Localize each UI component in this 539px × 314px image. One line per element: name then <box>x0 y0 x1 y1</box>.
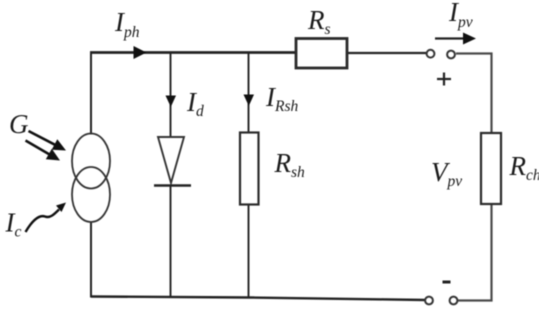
terminal node bottom left <box>425 297 433 305</box>
svg-text:Ic: Ic <box>5 208 22 241</box>
resistor Rch (load, vertical) <box>481 133 501 204</box>
wire Rsh branch upper <box>248 53 250 133</box>
svg-text:Rch: Rch <box>509 151 539 184</box>
wire Rsh branch lower <box>248 205 250 298</box>
wire top right to corner <box>456 54 492 134</box>
wire bottom horizontal <box>91 297 426 301</box>
wire bottom right corner <box>457 204 492 301</box>
svg-text:IRsh: IRsh <box>265 82 299 115</box>
terminal node bottom right <box>450 297 458 305</box>
svg-text:Id: Id <box>186 87 204 120</box>
label minus terminal <box>443 281 451 284</box>
arrow I_d (on diode branch) <box>166 96 177 108</box>
wire left vertical upper <box>90 53 92 135</box>
arrow I_Rsh (on shunt branch) <box>244 95 255 107</box>
svg-text:Iph: Iph <box>114 7 140 41</box>
svg-text:Rsh: Rsh <box>274 148 306 181</box>
arrow G irradiance 2 <box>26 141 61 161</box>
svg-text:Ipv: Ipv <box>448 0 473 31</box>
terminal node top left <box>427 50 435 58</box>
wire top left horizontal <box>90 51 296 54</box>
wire diode branch lower <box>170 186 172 298</box>
arrow I_pv (output current) <box>435 33 476 45</box>
svg-text:Rs: Rs <box>307 5 331 38</box>
resistor Rs (series, horizontal) <box>296 39 347 69</box>
label plus terminal <box>437 73 451 86</box>
svg-text:G: G <box>9 109 29 139</box>
terminal node top right <box>447 51 455 59</box>
diode D (triangle + cathode bar) <box>154 137 191 186</box>
arrow I_c pointer (curvy) <box>26 203 67 233</box>
wire diode branch upper <box>170 53 172 138</box>
current source I_c (photocurrent source, two overlapping ellipses) <box>72 134 110 223</box>
arrow G irradiance 1 <box>29 131 67 151</box>
arrow I_ph (on top wire) <box>134 46 147 59</box>
resistor Rsh (shunt, vertical) <box>240 133 259 205</box>
svg-text:Vpv: Vpv <box>431 157 462 190</box>
wire top middle horizontal <box>347 52 426 54</box>
wire left vertical lower <box>90 222 92 298</box>
